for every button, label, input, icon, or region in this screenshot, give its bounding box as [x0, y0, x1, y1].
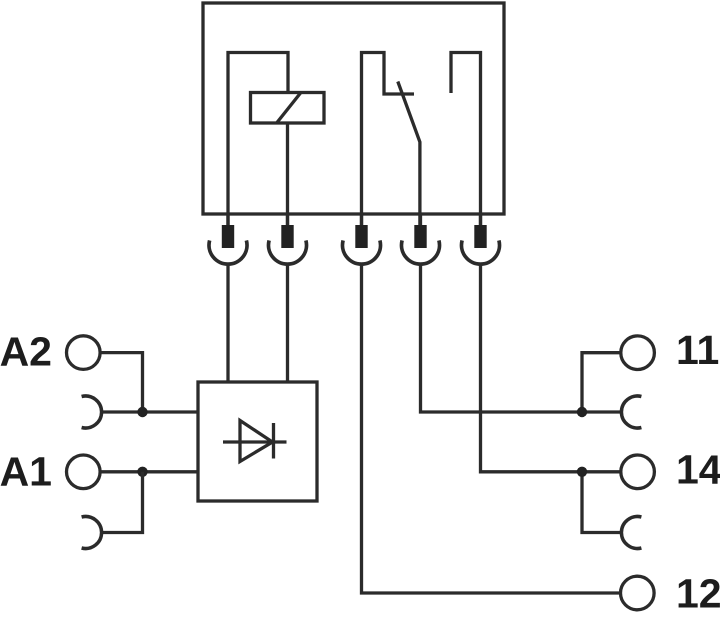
- wire junction to circle 11: [582, 353, 621, 412]
- terminal circle 11: [621, 336, 655, 370]
- wire A1 row to input box: [100, 470, 198, 473]
- wire junction to socket 14: [582, 472, 622, 533]
- svg-text:A2: A2: [0, 328, 52, 374]
- svg-text:14: 14: [676, 447, 720, 493]
- wire A1 drop to socket A1: [102, 472, 143, 533]
- wire COM to socket 11: [421, 264, 622, 413]
- node junction COM/11: [577, 407, 587, 417]
- diode D1: [223, 421, 287, 462]
- wire NC branch (terminal 3 up to NC contact): [362, 53, 415, 227]
- svg-text:12: 12: [676, 571, 720, 617]
- svg-text:A1: A1: [0, 449, 52, 495]
- terminal circle A2: [67, 336, 101, 370]
- node junction NO/14: [577, 467, 587, 477]
- wire terminal 1 to input box: [226, 264, 229, 383]
- plug terminal 5 (NO): [462, 214, 500, 264]
- socket 14: [621, 517, 641, 549]
- wire A2 drop to socket row: [100, 353, 143, 412]
- wire terminal 2 to input box: [286, 264, 289, 383]
- terminal circle A1: [67, 455, 101, 489]
- terminal circle 12: [621, 576, 655, 610]
- wire A2 row to input box: [102, 410, 199, 413]
- terminal circle 14: [621, 455, 655, 489]
- relay coil K: [251, 93, 325, 124]
- wire coil feed (terminal 1 up over to coil top): [228, 53, 288, 227]
- socket A2: [82, 396, 102, 428]
- socket 11: [621, 396, 641, 428]
- node junction A1: [137, 467, 147, 477]
- plug terminal 3 (NC): [342, 214, 380, 264]
- wire NC to terminal 12: [362, 264, 622, 594]
- relay enclosure box: [203, 3, 504, 214]
- wire NO to circle 14: [481, 264, 622, 472]
- node junction A2: [137, 407, 147, 417]
- wire NO branch (terminal 5 up to NO stub): [451, 53, 481, 227]
- socket A1: [82, 517, 102, 549]
- svg-text:11: 11: [676, 327, 719, 373]
- switch moving contact (COM blade): [398, 82, 420, 227]
- plug terminal 2 (coil -): [269, 214, 307, 264]
- plug terminal 4 (COM): [402, 214, 440, 264]
- wire coil return (coil bottom to terminal 2): [286, 123, 289, 226]
- plug terminal 1 (coil +): [209, 214, 247, 264]
- input module box: [198, 382, 317, 501]
